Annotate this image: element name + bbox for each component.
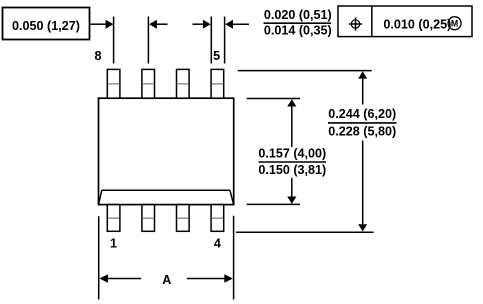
- svg-text:0.050 (1,27): 0.050 (1,27): [12, 19, 80, 33]
- pin 4 lead: [211, 205, 224, 232]
- pin 6 shoulder line: [177, 83, 188, 85]
- pin 2 lead: [142, 205, 155, 232]
- pin 3 shoulder line: [177, 217, 188, 219]
- pin 7 shoulder line: [143, 83, 154, 85]
- pin 4 shoulder line: [212, 217, 223, 219]
- svg-text:1: 1: [110, 237, 117, 251]
- body width top extension line: [247, 98, 300, 100]
- lead width value 0.020 (0,51) over 0.014 (0,35): [264, 8, 332, 38]
- overall width dimension line with arrows: [358, 71, 367, 231]
- svg-text:4: 4: [214, 237, 221, 251]
- MMC modifier symbol (M): [448, 17, 461, 30]
- svg-text:M: M: [451, 18, 458, 28]
- overall width top extension line: [238, 70, 372, 72]
- pin 1 lead: [107, 205, 120, 232]
- body width dimension line with arrows: [287, 99, 296, 204]
- svg-text:0.157 (4,00): 0.157 (4,00): [258, 147, 326, 161]
- pin 8 lead: [107, 69, 120, 98]
- svg-text:0.010 (0,25): 0.010 (0,25): [383, 17, 451, 31]
- svg-text:0.244 (6,20): 0.244 (6,20): [328, 107, 396, 121]
- pin 7 lead: [142, 69, 155, 98]
- svg-text:8: 8: [94, 49, 101, 63]
- svg-text:0.014 (0,35): 0.014 (0,35): [264, 24, 332, 38]
- pitch arrow pointing left at pin 7 centerline: [149, 20, 167, 29]
- pin 5 shoulder line: [212, 83, 223, 85]
- leader arrow from box to pin-8 centerline: [90, 20, 114, 29]
- svg-text:5: 5: [213, 49, 220, 63]
- dimension A right extension line: [233, 216, 235, 300]
- svg-text:A: A: [162, 273, 171, 287]
- extension line: pin 8 centerline: [113, 17, 115, 64]
- lead width arrow pointing right at pin 5 left edge: [193, 20, 211, 29]
- pin 2 shoulder line: [143, 217, 154, 219]
- pin 3 lead: [177, 205, 190, 232]
- dimension box 0.050 (1,27): [3, 8, 90, 40]
- overall width bottom extension line: [236, 231, 374, 233]
- pin 6 lead: [177, 69, 190, 98]
- body width value 0.157 (4,00) over 0.150 (3,81): [258, 147, 326, 177]
- pin 1 shoulder line: [108, 217, 119, 219]
- pin 8 shoulder line: [108, 83, 119, 85]
- lead width arrow pointing left at pin 5 right edge: [225, 20, 249, 29]
- svg-text:0.020 (0,51): 0.020 (0,51): [264, 8, 332, 22]
- pin 5 lead: [211, 69, 224, 98]
- true position symbol: [349, 17, 362, 30]
- body width bottom extension line: [247, 203, 300, 205]
- feature control frame: [338, 6, 472, 37]
- dimension A arrow right: [187, 274, 233, 283]
- extension line: pin 7 centerline: [147, 17, 149, 64]
- svg-text:0.150 (3,81): 0.150 (3,81): [258, 163, 326, 177]
- dimension A arrow left: [99, 274, 141, 283]
- overall width value 0.244 (6,20) over 0.228 (5,80): [328, 107, 397, 138]
- svg-text:0.228 (5,80): 0.228 (5,80): [328, 124, 396, 138]
- dimension A left extension line: [98, 216, 100, 299]
- index end chamfer: [99, 190, 234, 204]
- extension line: pin 5 right edge: [224, 17, 226, 64]
- package body: [99, 98, 234, 204]
- extension line: pin 5 left edge: [210, 17, 212, 64]
